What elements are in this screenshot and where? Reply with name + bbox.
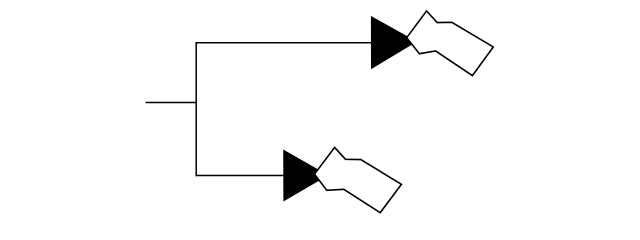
top branch wire xyxy=(196,42,372,44)
scribble load S1 (top blob, white fill over triangle tip) xyxy=(407,11,494,76)
vertical branch wire xyxy=(195,42,197,176)
buffer amplifier A2 (bottom triangle) xyxy=(283,150,328,202)
buffer amplifier A1 (top triangle) xyxy=(371,16,417,69)
scribble load S2 (bottom blob, white fill over triangle tip) xyxy=(315,147,402,212)
input stub wire xyxy=(146,102,197,104)
bottom branch wire xyxy=(196,175,284,177)
